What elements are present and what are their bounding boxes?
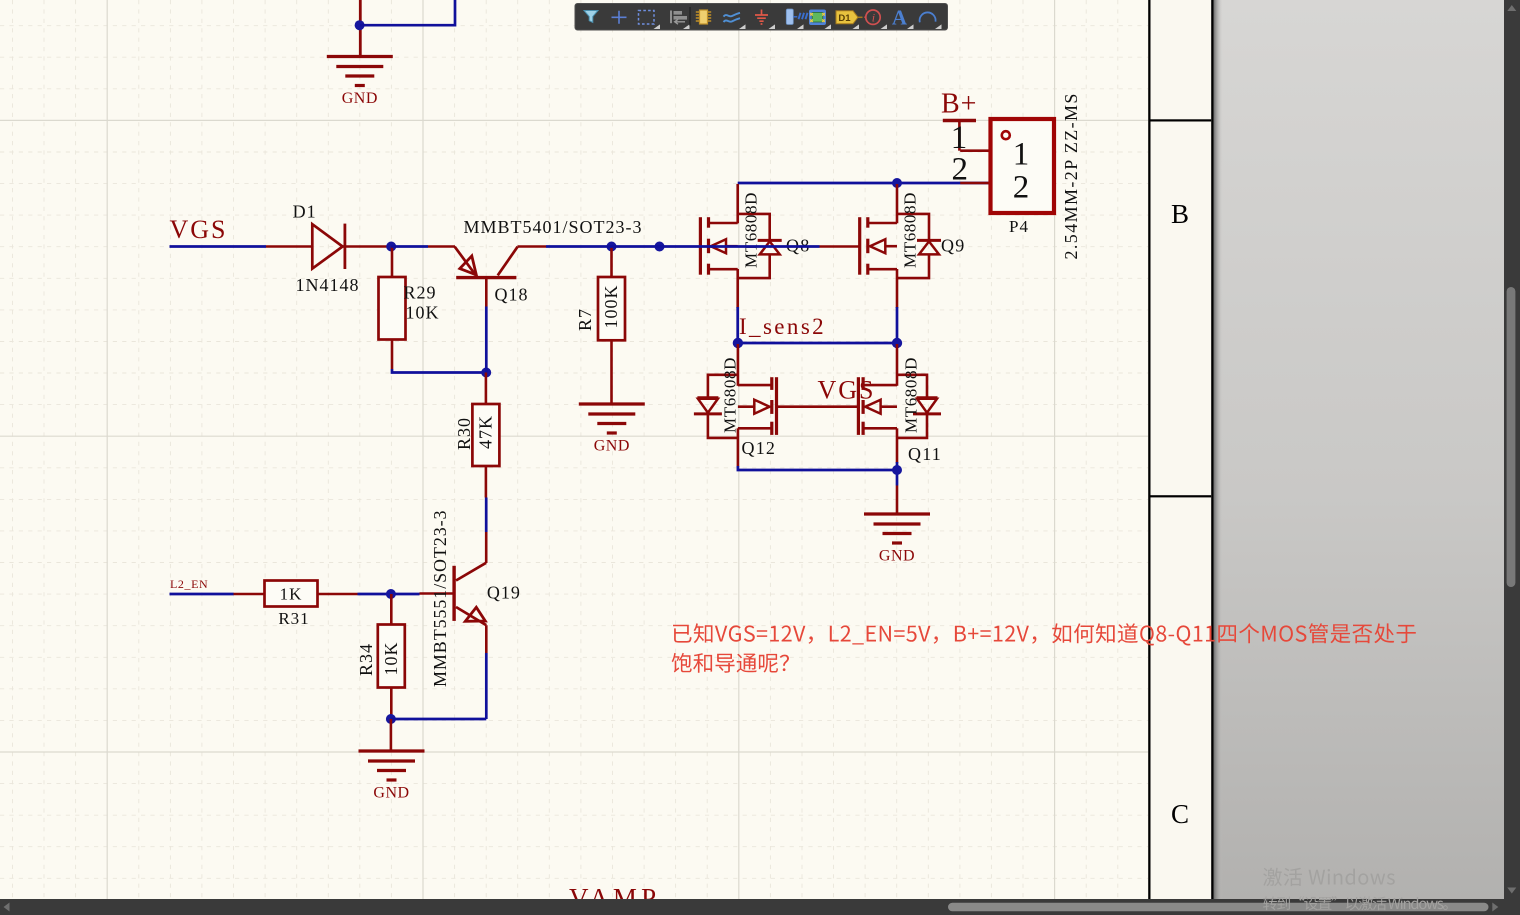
svg-text:MT6808D: MT6808D xyxy=(721,357,740,433)
transistor Q18 xyxy=(428,217,643,307)
toolbar gnd icon xyxy=(755,10,768,25)
svg-text:P4: P4 xyxy=(1009,217,1029,236)
svg-text:MMBT5401/SOT23-3: MMBT5401/SOT23-3 xyxy=(464,217,643,237)
svg-text:R7: R7 xyxy=(575,308,595,331)
resistor R30 xyxy=(454,373,500,498)
toolbar filter icon xyxy=(584,11,598,23)
mosfet Q8 xyxy=(700,192,810,278)
wire Q12 drain xyxy=(737,344,740,386)
ground xyxy=(864,514,930,565)
svg-text:2.54MM-2P ZZ-MS: 2.54MM-2P ZZ-MS xyxy=(1061,92,1081,259)
ground xyxy=(359,751,425,802)
vertical scrollbar xyxy=(1504,0,1520,915)
svg-text:VGS: VGS xyxy=(170,215,228,244)
junction xyxy=(733,338,743,348)
wire xyxy=(170,245,267,248)
svg-text:1: 1 xyxy=(1013,137,1030,173)
resistor R29 xyxy=(379,247,440,370)
svg-text:Q18: Q18 xyxy=(495,285,529,305)
wire xyxy=(485,653,488,719)
junction xyxy=(607,242,617,252)
toolbar sheet-symbol icon xyxy=(809,10,826,26)
watermark line 1 xyxy=(1263,868,1395,886)
svg-text:100K: 100K xyxy=(601,285,621,329)
svg-text:1K: 1K xyxy=(280,585,303,604)
wire xyxy=(738,466,897,470)
svg-text:i: i xyxy=(872,11,875,25)
net label I_sens2 xyxy=(739,314,826,339)
junction xyxy=(386,714,396,724)
net label VAMP xyxy=(569,883,660,913)
net label VGS xyxy=(170,215,228,244)
wire xyxy=(359,0,362,57)
wire gate link xyxy=(776,405,858,408)
svg-text:2: 2 xyxy=(1013,169,1030,205)
svg-text:Q11: Q11 xyxy=(908,444,942,464)
transistor Q19 xyxy=(420,510,521,687)
svg-text:Q19: Q19 xyxy=(487,583,521,603)
svg-text:Q9: Q9 xyxy=(941,236,965,256)
svg-text:47K: 47K xyxy=(476,415,496,449)
annotation line 2 xyxy=(672,653,789,673)
wire xyxy=(391,718,486,721)
toolbar arc icon xyxy=(920,12,936,22)
wire xyxy=(358,593,420,596)
ground xyxy=(327,57,393,108)
junction xyxy=(481,368,491,378)
wire xyxy=(170,593,234,596)
svg-text:R31: R31 xyxy=(278,609,309,628)
svg-text:D1: D1 xyxy=(838,13,851,24)
toolbar separator xyxy=(689,7,691,26)
net label VGS2 xyxy=(818,376,876,405)
svg-text:B+: B+ xyxy=(941,89,977,120)
wire Q11 source xyxy=(896,428,899,463)
svg-text:R29: R29 xyxy=(404,283,437,303)
svg-text:GND: GND xyxy=(594,438,630,455)
svg-text:R34: R34 xyxy=(356,643,376,676)
wire xyxy=(736,307,739,344)
ground xyxy=(579,404,645,455)
mosfet Q12 xyxy=(694,357,777,458)
diode D1 xyxy=(266,202,391,296)
wire xyxy=(738,182,991,185)
watermark line 2 xyxy=(1263,896,1448,910)
resistor R34 xyxy=(356,594,405,717)
wire xyxy=(820,245,860,248)
svg-text:GND: GND xyxy=(373,785,409,802)
toolbar move icon xyxy=(612,11,627,24)
svg-text:R30: R30 xyxy=(454,417,474,450)
toolbar place-part icon xyxy=(700,10,708,24)
svg-text:VGS: VGS xyxy=(818,376,876,405)
annotation line 1 xyxy=(673,623,1416,645)
wire xyxy=(390,719,393,751)
svg-text:2: 2 xyxy=(951,151,968,187)
wire xyxy=(485,307,488,373)
toolbar wire icon xyxy=(724,13,741,22)
junction xyxy=(386,589,396,599)
wire xyxy=(392,369,486,373)
wire xyxy=(896,486,899,515)
junction xyxy=(892,338,902,348)
toolbar no-erc icon xyxy=(866,10,880,24)
connector P4 xyxy=(951,92,1081,259)
wire xyxy=(896,307,899,344)
svg-text:GND: GND xyxy=(342,90,378,107)
horizontal scrollbar xyxy=(0,899,1520,915)
svg-text:10K: 10K xyxy=(406,303,440,323)
svg-text:I_sens2: I_sens2 xyxy=(739,314,826,339)
net label L2_EN xyxy=(170,577,208,591)
gray side panel xyxy=(1214,0,1505,899)
wire Q12 source xyxy=(737,428,740,466)
wire xyxy=(391,245,428,248)
sheet margin strip xyxy=(1150,0,1212,899)
wire xyxy=(896,462,899,486)
svg-text:MMBT5551/SOT23-3: MMBT5551/SOT23-3 xyxy=(430,510,450,687)
wire Q11 drain xyxy=(896,344,899,386)
wire xyxy=(360,0,455,25)
svg-text:C: C xyxy=(1171,799,1189,829)
toolbar select icon xyxy=(639,11,655,25)
wire Q8 source xyxy=(736,269,739,308)
wire Q9 drain xyxy=(896,184,899,223)
svg-text:MT6808D: MT6808D xyxy=(741,192,760,268)
junction xyxy=(892,465,902,475)
wire xyxy=(738,342,897,345)
junction xyxy=(655,242,665,252)
svg-text:GND: GND xyxy=(879,548,915,565)
wire xyxy=(546,245,820,248)
svg-text:Q12: Q12 xyxy=(742,438,777,458)
mosfet Q11 xyxy=(858,357,942,464)
sheet border lines xyxy=(1148,0,1150,899)
svg-text:1N4148: 1N4148 xyxy=(296,275,360,295)
junction xyxy=(892,178,902,188)
toolbar align icon xyxy=(670,11,672,24)
power port B+ xyxy=(941,89,977,151)
toolbar sheet icon xyxy=(786,9,793,25)
svg-text:D1: D1 xyxy=(293,202,317,222)
mosfet Q9 xyxy=(860,192,966,278)
junction xyxy=(386,242,396,252)
toolbar designator icon xyxy=(836,11,858,24)
schematic canvas xyxy=(0,0,1213,915)
wire xyxy=(485,498,488,533)
svg-text:MT6808D: MT6808D xyxy=(901,192,920,268)
resistor R31 xyxy=(234,581,358,629)
svg-text:B: B xyxy=(1171,199,1189,229)
svg-text:MT6808D: MT6808D xyxy=(902,357,921,433)
junction xyxy=(355,20,365,30)
resistor R7 xyxy=(575,247,625,405)
svg-text:L2_EN: L2_EN xyxy=(170,577,208,591)
toolbar xyxy=(575,4,948,31)
wire Q9 source xyxy=(896,269,899,308)
wire Q8 drain xyxy=(736,184,739,223)
svg-text:10K: 10K xyxy=(381,642,401,676)
svg-text:A: A xyxy=(892,6,908,30)
